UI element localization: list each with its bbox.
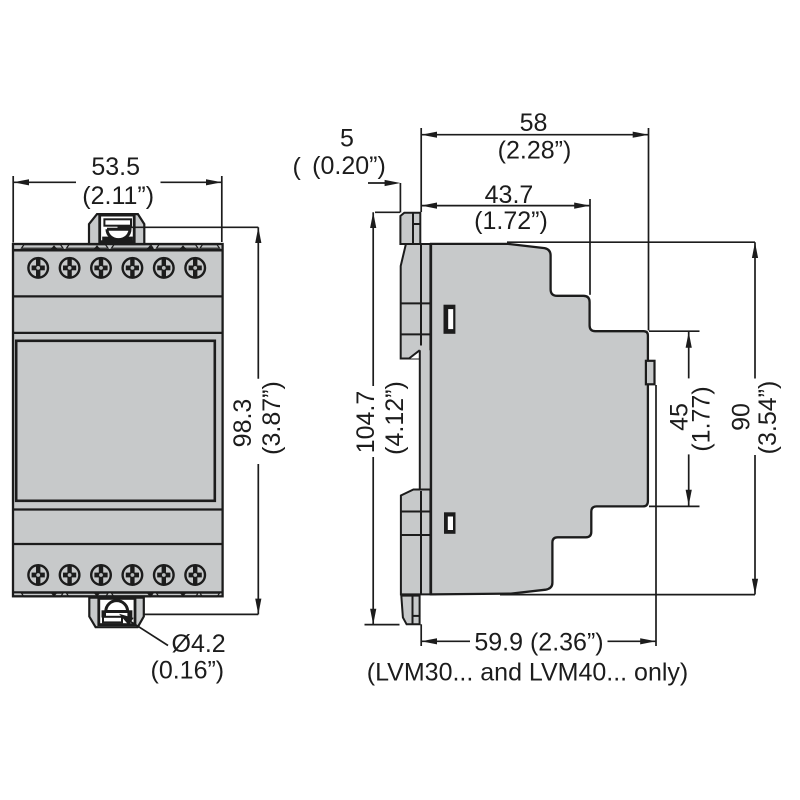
inner window rect	[16, 341, 215, 501]
top horizontal line B	[13, 332, 223, 334]
dim 58	[421, 128, 648, 331]
dim 43.7	[421, 199, 590, 295]
svg-text:59.9 (2.36”): 59.9 (2.36”)	[474, 629, 603, 657]
latch hole top	[444, 305, 456, 334]
dim 104.7	[365, 212, 401, 624]
latch hole bottom	[444, 512, 456, 534]
front body	[13, 244, 223, 596]
svg-text:(2.28”): (2.28”)	[498, 137, 572, 165]
dim 98.3	[118, 227, 262, 614]
dim 53.5	[13, 176, 222, 243]
clip narrow strip	[420, 350, 431, 490]
svg-text:58: 58	[520, 109, 548, 137]
clip lower block	[401, 490, 431, 595]
svg-text:(: (	[293, 153, 302, 181]
top strip line	[13, 249, 223, 252]
svg-text:43.7: 43.7	[485, 181, 534, 209]
dim 59.9	[421, 385, 656, 646]
side body profile	[431, 244, 648, 595]
svg-text:(4.12”): (4.12”)	[381, 381, 409, 455]
bottom strip line	[13, 591, 223, 593]
svg-text:104.7: 104.7	[352, 391, 380, 454]
svg-text:(LVM30... and LVM40... only): (LVM30... and LVM40... only)	[367, 659, 688, 687]
bottom horizontal line B2	[13, 508, 223, 510]
svg-text:(0.20”): (0.20”)	[312, 152, 386, 180]
DIN clip column	[400, 213, 430, 625]
right bump	[646, 361, 655, 385]
svg-text:(2.11”): (2.11”)	[82, 182, 154, 210]
dim 90	[500, 242, 758, 594]
svg-text:98.3: 98.3	[229, 399, 257, 448]
dim 45	[649, 331, 700, 506]
screws bottom row	[28, 565, 205, 586]
svg-text:(1.72”): (1.72”)	[474, 207, 548, 235]
svg-text:(3.54”): (3.54”)	[754, 381, 782, 455]
top strip slots	[22, 245, 220, 250]
svg-text:(1.77): (1.77)	[688, 386, 716, 451]
svg-text:90: 90	[728, 403, 756, 431]
svg-text:5: 5	[340, 125, 354, 153]
clip upper block	[401, 244, 431, 359]
screws top row	[28, 258, 205, 279]
back bar	[430, 243, 437, 595]
leader dia 4.2	[119, 614, 168, 646]
svg-text:Ø4.2: Ø4.2	[172, 630, 226, 658]
svg-text:53.5: 53.5	[91, 153, 140, 181]
svg-text:(0.16”): (0.16”)	[151, 657, 225, 685]
dim 5	[368, 180, 400, 213]
bottom mounting tab	[89, 598, 144, 628]
top mounting tab	[89, 214, 144, 244]
svg-text:(3.87”): (3.87”)	[258, 381, 286, 455]
bottom strip slots	[22, 593, 220, 597]
bottom horizontal line C	[13, 543, 223, 545]
top horizontal line A	[13, 295, 223, 297]
clip top tab	[400, 213, 420, 244]
clip bottom catch	[401, 596, 419, 625]
